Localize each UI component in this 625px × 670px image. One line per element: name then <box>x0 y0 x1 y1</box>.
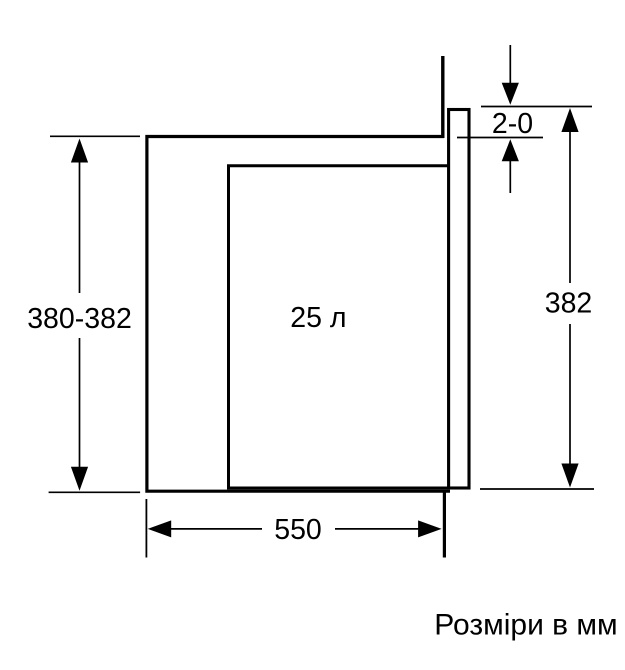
svg-text:2-0: 2-0 <box>492 108 533 140</box>
svg-text:Розміри в мм: Розміри в мм <box>434 609 617 642</box>
svg-text:380-382: 380-382 <box>27 303 132 335</box>
svg-text:550: 550 <box>274 514 322 546</box>
svg-text:25 л: 25 л <box>290 302 346 334</box>
svg-text:382: 382 <box>545 287 593 319</box>
